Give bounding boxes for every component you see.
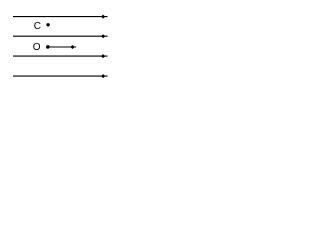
field line arrow 1 bbox=[13, 15, 108, 19]
svg-text:O: O bbox=[33, 42, 41, 53]
svg-text:C: C bbox=[34, 21, 41, 32]
field line arrow 4 bbox=[13, 74, 108, 78]
velocity arrow from O bbox=[48, 45, 76, 49]
point C dot bbox=[46, 23, 49, 26]
field line arrow 2 bbox=[13, 34, 108, 38]
field line arrow 3 bbox=[13, 54, 108, 58]
point O dot bbox=[46, 45, 50, 49]
